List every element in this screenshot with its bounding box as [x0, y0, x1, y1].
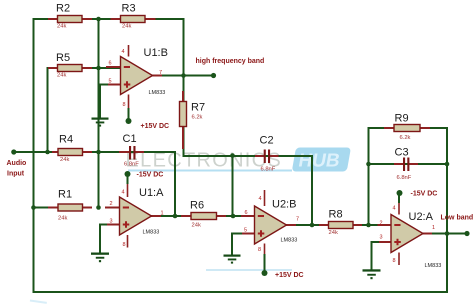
svg-text:4: 4: [393, 206, 396, 212]
svg-text:C3: C3: [395, 147, 409, 159]
svg-text:R1: R1: [58, 189, 72, 201]
svg-text:LM833: LM833: [143, 230, 160, 236]
svg-text:R9: R9: [395, 113, 409, 125]
svg-text:U2:B: U2:B: [272, 199, 296, 211]
ground (U1:B pin5): [92, 118, 109, 127]
svg-text:R8: R8: [329, 209, 343, 221]
svg-text:+15V DC: +15V DC: [275, 272, 304, 279]
svg-text:U1:A: U1:A: [139, 187, 164, 199]
svg-text:3: 3: [380, 235, 383, 241]
node C3 right: [445, 162, 450, 167]
resistor R9: [384, 113, 430, 142]
power +15V DC (U1:B pin8): [126, 118, 132, 124]
node R8 right: [366, 223, 371, 228]
svg-text:C1: C1: [123, 133, 137, 145]
svg-text:-15V DC: -15V DC: [137, 172, 164, 179]
power -15V DC (U2:A pin4): [397, 190, 403, 196]
wire U1:A output row to U2:B pin6: [152, 215, 255, 217]
wire R7-C2 row: [184, 155, 313, 157]
svg-text:24k: 24k: [57, 24, 66, 30]
svg-text:HUB: HUB: [297, 151, 342, 172]
node high frequency band terminal: [211, 73, 216, 78]
svg-text:7: 7: [296, 217, 299, 223]
wire R5 row: [48, 67, 121, 69]
svg-text:7: 7: [159, 70, 162, 76]
svg-text:LM833: LM833: [425, 263, 442, 269]
svg-text:5: 5: [244, 228, 247, 234]
svg-text:24k: 24k: [122, 24, 131, 30]
svg-text:+15V DC: +15V DC: [141, 123, 170, 130]
wire U2:B pin5 to ground: [231, 234, 233, 255]
svg-text:8: 8: [258, 247, 261, 253]
svg-text:6.8nF: 6.8nF: [124, 162, 139, 168]
resistor R3: [111, 3, 156, 30]
op-amp U2:B: [241, 190, 304, 279]
svg-text:1: 1: [432, 225, 435, 231]
svg-text:24k: 24k: [329, 230, 338, 236]
svg-text:6.8nF: 6.8nF: [397, 175, 412, 181]
svg-text:U1:B: U1:B: [144, 47, 168, 59]
wire R7 branch vertical: [183, 76, 185, 157]
svg-text:R6: R6: [190, 200, 204, 212]
node R4-C1: [96, 150, 101, 155]
svg-text:5: 5: [109, 79, 112, 85]
node R2-R3 junction: [96, 17, 101, 22]
capacitor C1: [119, 133, 144, 168]
watermark ELECTRONICS HUB logo: [30, 148, 351, 304]
wire U1:B pin5 to ground: [99, 85, 101, 118]
svg-text:LM833: LM833: [149, 90, 166, 96]
svg-text:6: 6: [109, 61, 112, 67]
node U1:A output junction: [173, 214, 178, 219]
svg-text:24k: 24k: [192, 223, 201, 229]
wire U1:B pin5: [100, 84, 121, 86]
capacitor C3: [394, 147, 418, 182]
node R1 right summing: [96, 205, 101, 210]
power -15V DC (U1:A pin4): [125, 171, 131, 177]
resistor R8: [319, 209, 362, 237]
svg-text:6.8nF: 6.8nF: [261, 167, 276, 173]
node R6 right: [231, 214, 236, 219]
svg-text:1: 1: [161, 211, 164, 217]
wire right output rail: [446, 128, 448, 292]
svg-text:Audio: Audio: [7, 160, 27, 167]
node R5 stub on audio row: [45, 150, 50, 155]
resistor R4: [52, 134, 92, 164]
wire C1 drop to U1:A output: [174, 152, 176, 216]
svg-text:3: 3: [110, 219, 113, 225]
svg-text:2: 2: [380, 221, 383, 227]
node R7-C2 row branch: [230, 153, 235, 158]
wire U2:A pin3: [372, 241, 392, 243]
capacitor C2: [255, 135, 279, 173]
node U1:B output junction: [181, 73, 186, 78]
junction nodes: [11, 17, 469, 236]
svg-text:24k: 24k: [60, 157, 69, 163]
svg-text:6.2k: 6.2k: [192, 115, 203, 121]
wire R3 output drop: [183, 19, 185, 76]
node left rail R1 row: [31, 205, 36, 210]
svg-text:8: 8: [123, 102, 126, 108]
wire left feedback rail: [33, 19, 35, 292]
resistor R2: [48, 3, 92, 30]
svg-text:U2:A: U2:A: [409, 211, 434, 223]
svg-text:24k: 24k: [58, 216, 67, 222]
svg-text:high frequency band: high frequency band: [196, 58, 265, 65]
wire C3 row: [369, 163, 448, 165]
ground (U1:A pin3): [91, 253, 109, 263]
svg-text:6.2k: 6.2k: [400, 135, 411, 141]
svg-text:Input: Input: [7, 171, 25, 178]
wire U1:B output row: [153, 75, 214, 77]
node audio input terminal: [11, 149, 16, 154]
svg-text:2: 2: [110, 201, 113, 207]
resistor R7 (vertical): [180, 91, 206, 149]
wire U2:B output row to U2:A pin2: [287, 224, 392, 226]
op-amp U1:B: [106, 45, 169, 130]
wire U2:B pin5: [232, 233, 255, 235]
svg-text:R5: R5: [56, 52, 70, 64]
svg-text:R3: R3: [122, 3, 136, 15]
node R5 right: [96, 66, 101, 71]
svg-text:LM833: LM833: [281, 238, 298, 244]
resistor R6: [181, 200, 226, 229]
resistor R1: [48, 189, 92, 222]
node low band junction: [445, 231, 450, 236]
wire U2:A pin3 to ground: [371, 242, 373, 269]
wire U1:A pin3 to ground: [99, 225, 101, 253]
svg-text:4: 4: [122, 49, 125, 55]
resistor R5: [48, 52, 92, 79]
power +15V DC (U2:B pin8): [262, 270, 268, 276]
svg-text:4: 4: [122, 190, 125, 196]
ground (U2:B pin5): [224, 255, 241, 264]
wire U2:A output: [423, 233, 467, 235]
svg-text:24k: 24k: [57, 73, 66, 79]
wire top row R2-R3: [34, 18, 184, 20]
svg-text:4: 4: [259, 196, 262, 202]
svg-text:R4: R4: [59, 134, 73, 146]
wire U1:A pin3: [100, 224, 120, 226]
wire R8 right rail up: [368, 128, 370, 225]
wire C2 branch vertical: [232, 156, 234, 216]
wire audio input row to C1: [14, 151, 175, 153]
node C3 left: [366, 162, 371, 167]
op-amp U2:A: [378, 190, 442, 269]
svg-text:C2: C2: [260, 135, 274, 147]
ground (U2:A pin3): [363, 269, 381, 279]
svg-text:8: 8: [123, 242, 126, 248]
node low band terminal: [464, 231, 469, 236]
wire R9 row: [369, 127, 448, 129]
node Audio Input label: [7, 160, 27, 178]
wire R1 row from left rail: [34, 207, 59, 209]
wire bottom feedback rail: [34, 291, 448, 293]
svg-text:R2: R2: [56, 3, 70, 15]
wire R5 stub down: [47, 68, 49, 152]
node U2:B output junction: [310, 223, 315, 228]
op-amp U1:A: [105, 171, 164, 248]
svg-text:R7: R7: [191, 102, 205, 114]
svg-text:6: 6: [245, 210, 248, 216]
svg-text:8: 8: [393, 258, 396, 264]
wire C2 drop to U2:B output: [311, 156, 313, 225]
wire mid rail (summing node): [98, 19, 100, 208]
svg-text:Low band: Low band: [441, 215, 474, 222]
svg-text:-15V DC: -15V DC: [411, 191, 438, 198]
